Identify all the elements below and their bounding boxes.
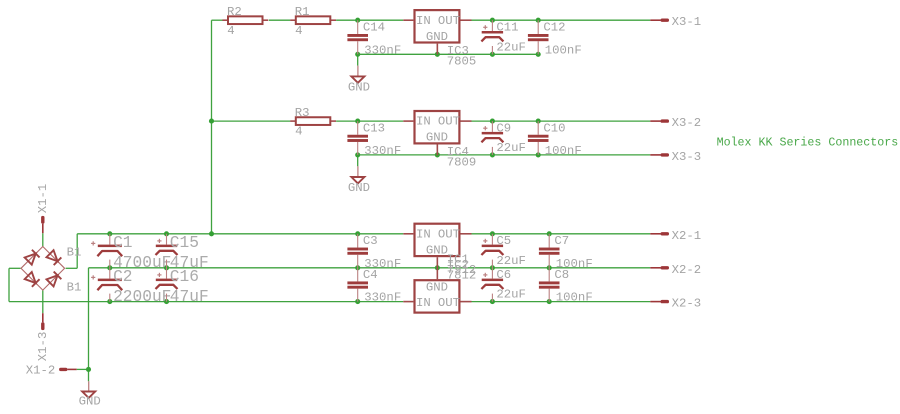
- svg-text:X3-2: X3-2: [672, 116, 702, 130]
- svg-text:C7: C7: [554, 234, 569, 248]
- junction: [107, 231, 112, 236]
- capacitor C15: [156, 234, 209, 272]
- wire: [77, 233, 403, 235]
- junction: [547, 265, 552, 270]
- capacitor C3: [347, 234, 401, 271]
- bridge diode (left-bottom): [24, 272, 39, 287]
- junction: [164, 231, 169, 236]
- svg-text:GND: GND: [348, 81, 370, 95]
- svg-text:2200uF: 2200uF: [113, 288, 171, 306]
- capacitor C14: [347, 20, 401, 57]
- svg-text:X3-3: X3-3: [672, 150, 702, 164]
- svg-text:C13: C13: [363, 122, 385, 136]
- junction: [355, 119, 360, 124]
- svg-text:C6: C6: [496, 268, 511, 282]
- junction: [107, 299, 112, 304]
- svg-text:4: 4: [227, 24, 234, 38]
- svg-text:22uF: 22uF: [496, 141, 526, 155]
- svg-text:7809: 7809: [447, 156, 477, 170]
- svg-text:GND: GND: [348, 181, 370, 195]
- wire: [358, 154, 651, 156]
- svg-text:4: 4: [295, 24, 302, 38]
- junction: [490, 231, 495, 236]
- junction: [164, 265, 169, 270]
- svg-text:22uF: 22uF: [496, 254, 526, 268]
- svg-text:330nF: 330nF: [364, 43, 401, 57]
- wire: [211, 20, 213, 234]
- wire: [472, 233, 651, 235]
- svg-text:C14: C14: [363, 21, 385, 35]
- wire: [336, 120, 403, 122]
- svg-text:C12: C12: [543, 21, 565, 35]
- svg-text:IN: IN: [416, 115, 431, 129]
- svg-text:OUT: OUT: [438, 296, 460, 310]
- wire: [9, 267, 21, 269]
- svg-text:4: 4: [295, 125, 302, 139]
- wire: [42, 233, 44, 246]
- svg-text:Molex KK Series Connectors: Molex KK Series Connectors: [717, 136, 899, 149]
- wire: [77, 368, 89, 370]
- svg-text:100nF: 100nF: [545, 43, 582, 57]
- junction: [547, 231, 552, 236]
- wire: [88, 268, 90, 382]
- junction: [209, 119, 214, 124]
- junction: [490, 299, 495, 304]
- junction: [536, 119, 541, 124]
- wire: [212, 120, 291, 122]
- svg-text:R2: R2: [227, 5, 242, 19]
- wire: [472, 19, 651, 21]
- svg-text:C8: C8: [554, 268, 569, 282]
- junction: [107, 265, 112, 270]
- svg-text:R3: R3: [295, 106, 310, 120]
- svg-text:GND: GND: [426, 131, 448, 145]
- svg-text:X3-1: X3-1: [672, 15, 702, 29]
- wire: [76, 234, 78, 268]
- svg-text:IN: IN: [416, 296, 431, 310]
- junction: [490, 119, 495, 124]
- svg-text:100nF: 100nF: [556, 291, 593, 305]
- wire: [472, 120, 651, 122]
- svg-text:22uF: 22uF: [496, 40, 526, 54]
- junction: [355, 52, 360, 57]
- capacitor C12: [528, 20, 582, 57]
- svg-text:C1: C1: [113, 234, 132, 252]
- junction: [355, 231, 360, 236]
- svg-text:X1-1: X1-1: [36, 184, 50, 214]
- capacitor C7: [539, 234, 593, 271]
- capacitor C1: [91, 234, 171, 272]
- capacitor C13: [347, 121, 401, 158]
- junction: [355, 18, 360, 23]
- capacitor C4: [347, 268, 401, 305]
- connector pin X2-1: [650, 229, 701, 243]
- wire: [212, 19, 223, 21]
- connector pin X1-3: [36, 313, 50, 361]
- svg-text:330nF: 330nF: [364, 291, 401, 305]
- junction: [490, 152, 495, 157]
- connector pin X2-2: [650, 263, 701, 277]
- junction: [490, 18, 495, 23]
- svg-text:B1: B1: [67, 281, 82, 295]
- junction: [536, 152, 541, 157]
- wire: [357, 54, 359, 65]
- connector pin X3-3: [650, 150, 701, 164]
- voltage regulator IC2: [403, 224, 476, 283]
- capacitor C11: [481, 20, 526, 54]
- junction: [164, 299, 169, 304]
- junction: [490, 265, 495, 270]
- junction: [355, 265, 360, 270]
- resistor R1: [290, 5, 336, 38]
- ground: [79, 381, 101, 408]
- connector pin X1-1: [36, 184, 50, 233]
- wire: [9, 301, 403, 303]
- junction: [355, 152, 360, 157]
- svg-text:C5: C5: [496, 234, 511, 248]
- capacitor C2: [91, 268, 171, 306]
- svg-text:100nF: 100nF: [545, 144, 582, 158]
- wire: [472, 301, 651, 303]
- capacitor C10: [528, 121, 582, 158]
- svg-text:C11: C11: [496, 21, 518, 35]
- wire: [269, 19, 291, 21]
- junction: [490, 52, 495, 57]
- junction: [536, 52, 541, 57]
- svg-text:22uF: 22uF: [496, 288, 526, 302]
- svg-text:C2: C2: [113, 268, 132, 286]
- svg-text:GND: GND: [79, 395, 101, 409]
- svg-text:X1-2: X1-2: [26, 364, 56, 378]
- svg-text:IN: IN: [416, 14, 431, 28]
- ground: [348, 166, 370, 195]
- svg-text:IN: IN: [416, 227, 431, 241]
- svg-text:X2-3: X2-3: [672, 297, 702, 311]
- wire: [89, 267, 651, 269]
- bridge rectifier B1: [21, 245, 81, 294]
- junction: [435, 52, 440, 57]
- svg-text:C4: C4: [363, 268, 378, 282]
- ground: [348, 66, 370, 95]
- wire: [358, 53, 539, 55]
- svg-text:C9: C9: [496, 122, 511, 136]
- svg-text:C3: C3: [363, 234, 378, 248]
- svg-text:47uF: 47uF: [170, 288, 209, 306]
- capacitor C8: [539, 268, 593, 305]
- svg-text:B1: B1: [67, 245, 82, 259]
- bridge diode (bottom-right): [46, 272, 61, 287]
- svg-text:R1: R1: [295, 5, 310, 19]
- svg-text:OUT: OUT: [438, 115, 460, 129]
- svg-text:X2-1: X2-1: [672, 229, 702, 243]
- svg-text:GND: GND: [426, 30, 448, 44]
- wire: [357, 155, 359, 166]
- voltage regulator IC1: [403, 253, 476, 313]
- capacitor C9: [481, 121, 526, 155]
- wire: [336, 19, 403, 21]
- wire: [66, 267, 78, 269]
- wire: [42, 290, 44, 313]
- connector pin X1-2: [26, 364, 77, 378]
- resistor R3: [290, 106, 336, 139]
- svg-text:OUT: OUT: [438, 14, 460, 28]
- svg-text:C10: C10: [543, 122, 565, 136]
- bridge diode (left-top): [24, 250, 39, 265]
- svg-text:C15: C15: [170, 234, 199, 252]
- junction: [547, 299, 552, 304]
- junction: [209, 231, 214, 236]
- voltage regulator IC4: [403, 111, 476, 170]
- svg-text:X1-3: X1-3: [36, 332, 50, 362]
- junction: [435, 265, 440, 270]
- svg-text:GND: GND: [426, 243, 448, 257]
- connector pin X3-2: [650, 116, 701, 130]
- svg-text:7912: 7912: [447, 263, 477, 277]
- svg-text:OUT: OUT: [438, 227, 460, 241]
- svg-text:7805: 7805: [447, 55, 477, 69]
- op-amp U? voltage regulator IC3: [403, 10, 476, 69]
- junction: [86, 367, 91, 372]
- wire: [8, 268, 10, 301]
- capacitor C5: [481, 234, 526, 268]
- junction: [435, 152, 440, 157]
- svg-text:330nF: 330nF: [364, 144, 401, 158]
- junction: [355, 299, 360, 304]
- capacitor C6: [481, 268, 526, 302]
- svg-text:GND: GND: [426, 280, 448, 294]
- svg-text:X2-2: X2-2: [672, 263, 702, 277]
- junction: [536, 18, 541, 23]
- svg-text:C16: C16: [170, 268, 199, 286]
- resistor R2: [222, 5, 268, 38]
- connector pin X2-3: [650, 297, 701, 311]
- connector pin X3-1: [650, 15, 701, 29]
- bridge diode (top-right): [46, 250, 61, 265]
- capacitor C16: [156, 268, 209, 306]
